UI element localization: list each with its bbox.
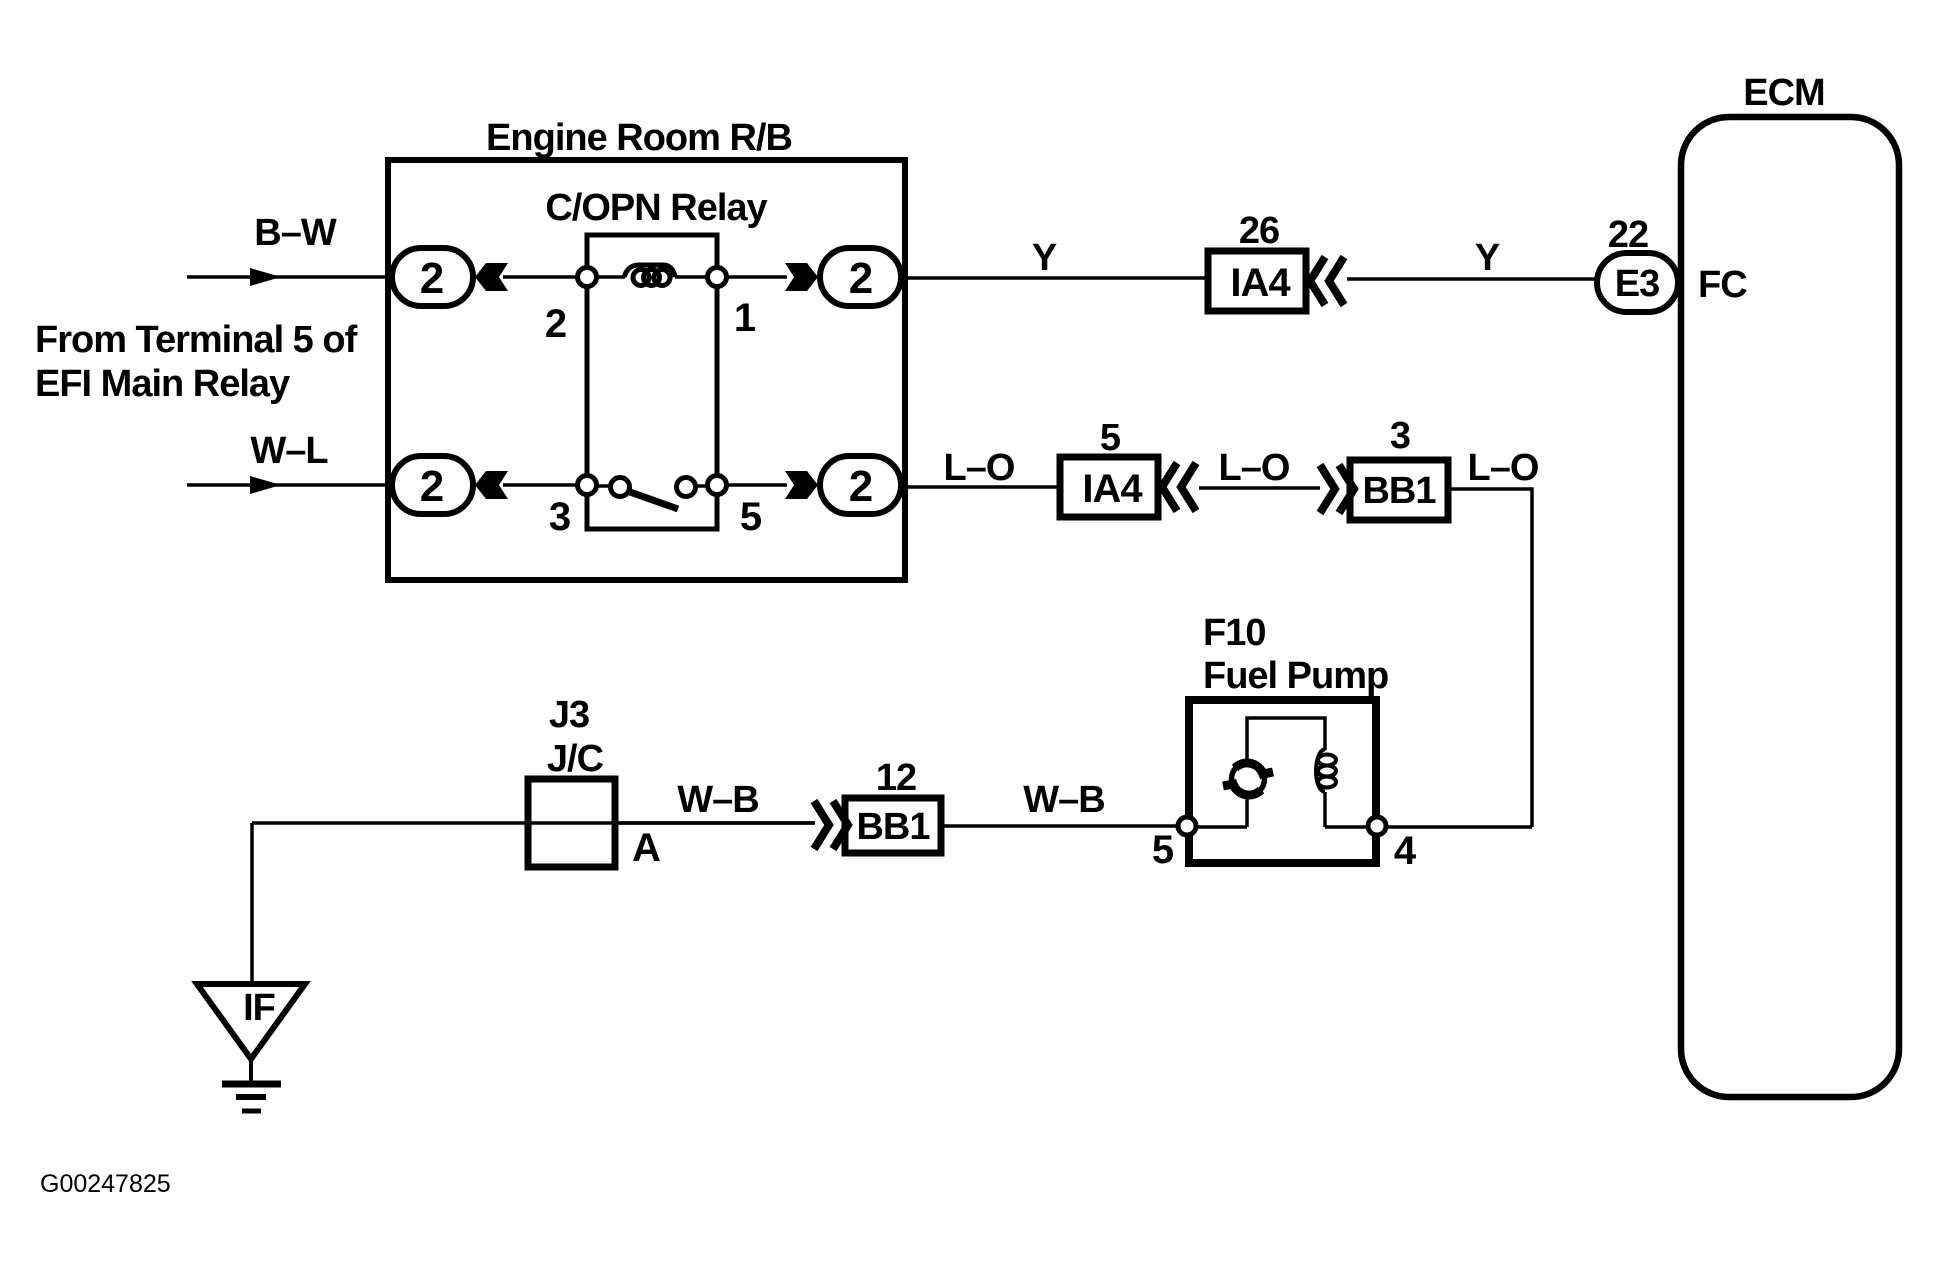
wire L-O from BB1 to riser	[1448, 489, 1532, 827]
ground triangle IF	[197, 984, 305, 1059]
wire Y to E3	[1347, 277, 1598, 281]
connector oval 2 bottom-right	[820, 456, 901, 514]
svg-text:5: 5	[740, 495, 762, 539]
svg-text:W–B: W–B	[677, 779, 758, 821]
pump pin 5	[1178, 817, 1196, 835]
svg-text:ECM: ECM	[1743, 72, 1824, 114]
wire L-O between connectors	[1199, 486, 1320, 490]
arrow into relay top-left	[475, 263, 508, 291]
svg-text:22: 22	[1608, 214, 1648, 256]
connector oval 2 top-left	[392, 248, 473, 306]
svg-text:W–B: W–B	[1023, 779, 1104, 821]
svg-text:2: 2	[849, 254, 873, 303]
svg-text:BB1: BB1	[1362, 470, 1436, 512]
wire pump pin4 to riser	[1386, 825, 1532, 829]
svg-text:2: 2	[545, 302, 567, 346]
svg-text:IF: IF	[243, 987, 275, 1029]
wire relay pin1 to arrow	[727, 275, 787, 279]
relay switch blade	[630, 492, 678, 509]
relay coil	[596, 265, 708, 286]
connector oval 2 top-right	[820, 248, 901, 306]
svg-text:L–O: L–O	[944, 447, 1015, 489]
connector IA4 5	[1060, 457, 1158, 517]
svg-text:E3: E3	[1615, 263, 1659, 305]
relay pin 3 terminal	[578, 476, 597, 495]
relay C/OPN Relay box	[587, 235, 717, 529]
wire W-L feed	[187, 476, 388, 494]
svg-text:B–W: B–W	[254, 212, 337, 254]
svg-text:3: 3	[1390, 415, 1410, 457]
svg-text:L–O: L–O	[1468, 447, 1539, 489]
svg-text:EFI Main Relay: EFI Main Relay	[35, 363, 290, 405]
wire W-B J/C to BB1-12	[615, 821, 814, 825]
junction J3 J/C box	[528, 779, 615, 867]
ECM box	[1681, 117, 1899, 1097]
wire W-B BB1 to pump	[941, 824, 1180, 828]
pump inner bottom wires	[1187, 825, 1377, 829]
relay pin 1 terminal	[708, 268, 727, 287]
svg-text:IA4: IA4	[1230, 261, 1291, 305]
chevrons male BB1-12	[814, 801, 848, 849]
svg-text:FC: FC	[1698, 264, 1747, 306]
svg-text:3: 3	[549, 495, 571, 539]
pump inner top wire	[1247, 718, 1325, 762]
svg-text:12: 12	[876, 757, 916, 799]
svg-text:Y: Y	[1475, 237, 1500, 279]
svg-text:IA4: IA4	[1082, 467, 1143, 511]
svg-text:26: 26	[1239, 210, 1279, 252]
arrow out bottom-right	[785, 471, 818, 499]
svg-text:2: 2	[420, 462, 444, 511]
svg-text:1: 1	[734, 296, 756, 340]
wire pin3 to pivot	[594, 484, 614, 488]
wire oval to relay pin3	[503, 483, 587, 487]
svg-text:Y: Y	[1032, 237, 1057, 279]
relay switch pivot contact	[611, 478, 630, 497]
svg-text:5: 5	[1100, 417, 1121, 459]
ground stem	[249, 1059, 253, 1084]
connector oval 2 bottom-left	[392, 456, 473, 514]
svg-text:F10: F10	[1203, 612, 1265, 654]
svg-text:G00247825: G00247825	[40, 1170, 171, 1198]
relay pin 2 terminal	[578, 268, 597, 287]
svg-text:A: A	[632, 826, 661, 870]
wire relay pin5 to arrow	[727, 483, 787, 487]
svg-text:BB1: BB1	[856, 806, 930, 848]
svg-text:5: 5	[1152, 828, 1174, 872]
fuel pump box	[1189, 700, 1376, 863]
svg-text:4: 4	[1394, 829, 1417, 873]
pump pin 4	[1368, 817, 1386, 835]
arrow out top-right	[785, 263, 818, 291]
relay pin 5 terminal	[708, 476, 727, 495]
wire L-O to IA4-5	[901, 485, 1060, 489]
svg-text:Fuel Pump: Fuel Pump	[1203, 655, 1388, 697]
svg-text:W–L: W–L	[250, 430, 328, 472]
chevrons male BB1-3	[1320, 465, 1354, 513]
wire contact to pin5	[692, 484, 710, 488]
svg-text:L–O: L–O	[1219, 447, 1290, 489]
connector BB1 3	[1350, 460, 1448, 520]
engine room R/B box	[388, 160, 905, 580]
wire ground drop	[250, 823, 254, 985]
connector BB1 12	[845, 798, 941, 853]
connector E3	[1597, 253, 1678, 312]
svg-text:C/OPN Relay: C/OPN Relay	[545, 187, 767, 229]
svg-text:2: 2	[420, 254, 444, 303]
wire ground run to J/C	[252, 821, 815, 825]
wire B-W feed	[187, 268, 388, 286]
wire oval to relay pin2	[503, 275, 587, 279]
pump coil	[1316, 749, 1336, 792]
svg-text:From Terminal 5 of: From Terminal 5 of	[35, 319, 358, 361]
pump motor lower lead	[1245, 796, 1249, 827]
svg-text:Engine Room R/B: Engine Room R/B	[486, 117, 792, 159]
ground bars	[222, 1084, 281, 1111]
motor M symbol	[1223, 763, 1273, 796]
connector IA4 26	[1208, 251, 1306, 311]
arrow into relay bottom-left	[475, 471, 508, 499]
chevrons female IA4-26	[1310, 257, 1344, 305]
wire Y to IA4	[901, 276, 1208, 280]
relay switch fixed contact	[677, 478, 696, 497]
pump coil lower lead	[1323, 792, 1327, 827]
svg-text:J3: J3	[549, 694, 589, 736]
chevrons female IA4-5	[1162, 463, 1196, 511]
svg-text:2: 2	[849, 462, 873, 511]
svg-text:J/C: J/C	[547, 738, 604, 780]
label From Terminal 5 of EFI Main Relay	[35, 319, 358, 405]
